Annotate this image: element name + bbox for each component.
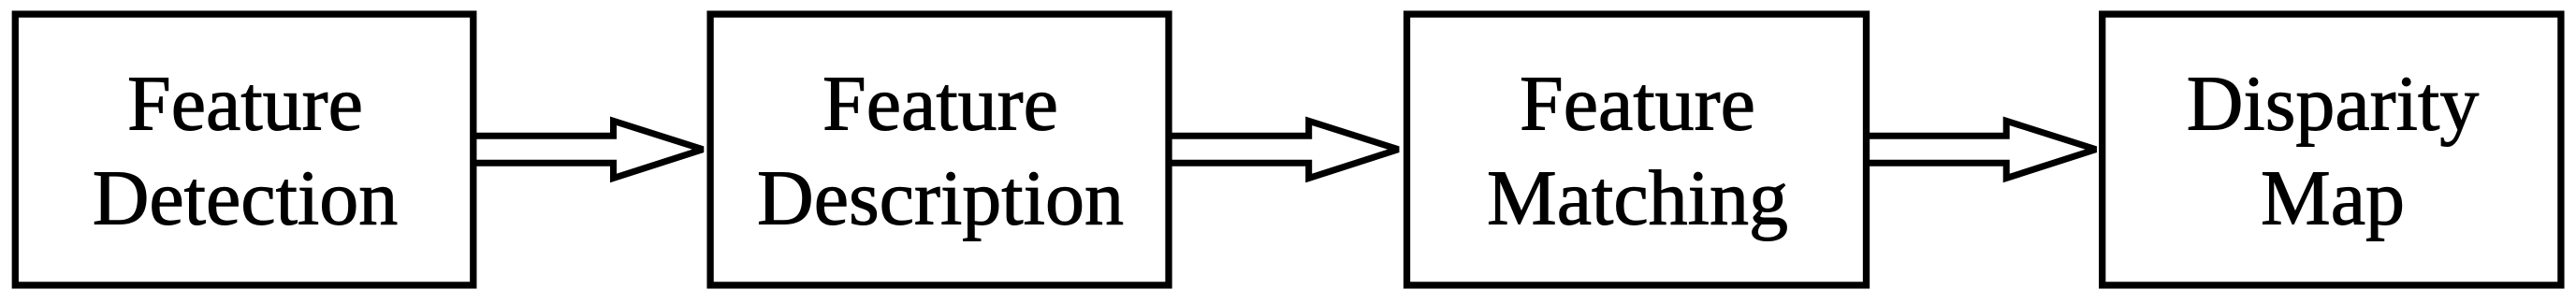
svg-text:Detection: Detection: [93, 154, 399, 241]
svg-text:Disparity: Disparity: [2187, 61, 2480, 148]
svg-text:Matching: Matching: [1487, 154, 1788, 241]
svg-text:Description: Description: [757, 154, 1124, 241]
svg-text:Feature: Feature: [1520, 61, 1755, 148]
svg-text:Feature: Feature: [822, 61, 1058, 148]
svg-text:Map: Map: [2261, 154, 2405, 241]
svg-text:Feature: Feature: [127, 61, 363, 148]
